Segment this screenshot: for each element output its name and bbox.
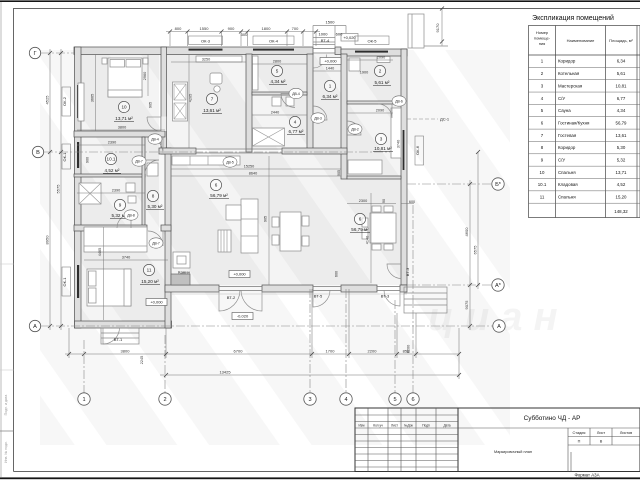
svg-text:6,34 м²: 6,34 м² [323,94,338,99]
sofa room7 [173,82,188,121]
svg-text:8640: 8640 [249,172,257,176]
bench room3 [391,108,401,158]
axis line 2 [164,335,166,393]
sheet bottom black line [0,477,640,479]
svg-text:ДС-1: ДС-1 [440,117,450,122]
svg-text:90: 90 [382,199,386,203]
door labels DV [124,88,406,248]
table room7 [210,73,222,84]
svg-text:В: В [600,440,603,444]
svg-text:13,71: 13,71 [616,170,628,175]
wall living bottom seg3 [341,285,377,292]
svg-text:148,32: 148,32 [614,209,628,214]
svg-text:ния: ния [539,41,546,46]
svg-text:15250: 15250 [244,165,255,169]
svg-text:4140: 4140 [366,236,370,244]
svg-text:4,34 м²: 4,34 м² [271,79,286,84]
svg-text:1000: 1000 [319,31,329,36]
svg-text:1900: 1900 [360,71,368,75]
svg-text:Кладовая: Кладовая [558,182,578,187]
svg-text:+0,000: +0,000 [233,272,246,277]
svg-text:Изм: Изм [359,424,365,428]
node room1 circle [324,80,335,91]
svg-text:5,61 м²: 5,61 м² [375,80,390,85]
svg-text:ДВ-8: ДВ-8 [127,213,135,217]
door room10 opening [161,117,166,132]
svg-text:5,32: 5,32 [617,158,626,163]
svg-text:2245: 2245 [140,356,144,364]
svg-text:А: А [33,324,37,330]
door arc VT-2 right leaf [241,290,262,311]
svg-text:56,79 м²: 56,79 м² [210,193,228,198]
svg-text:2390: 2390 [112,189,120,193]
svg-text:5: 5 [393,397,396,403]
wall divider rooms 2-3 [347,101,401,104]
svg-text:15,20 м²: 15,20 м² [141,279,159,284]
axis dash-dot lines [41,53,493,393]
svg-text:ВТ-2: ВТ-2 [227,295,236,300]
svg-text:Спальня: Спальня [558,195,576,200]
svg-text:1: 1 [82,397,85,403]
axis line A [41,325,493,327]
sheet left edge [0,2,2,477]
wall top main [74,47,313,55]
svg-text:4: 4 [344,397,347,403]
bathtub room4 [253,128,285,146]
svg-text:Спальня: Спальня [558,170,576,175]
top dim chain [166,31,320,33]
svg-text:13,61: 13,61 [616,133,628,138]
door arc DV-7 room8 [145,160,159,174]
svg-text:Мастерская: Мастерская [558,83,583,88]
svg-text:6575: 6575 [473,245,478,255]
svg-text:4600: 4600 [464,227,469,237]
opening VT-2 [219,287,262,291]
windows dark [77,49,404,298]
svg-text:4,52 м²: 4,52 м² [105,168,120,173]
svg-text:6: 6 [411,397,414,403]
walls [74,47,407,328]
svg-text:4,52: 4,52 [617,182,626,187]
opening DV-5 living top [196,149,282,153]
svg-text:10: 10 [540,170,545,175]
svg-text:3665: 3665 [91,94,95,102]
svg-text:Номер: Номер [536,30,549,35]
svg-text:Котельная: Котельная [558,71,580,76]
L-sofa living [241,199,258,253]
dimension lines [50,9,478,380]
svg-text:5575: 5575 [56,184,61,194]
wall above wardrobe left seg [74,225,147,231]
window OK-5 [355,51,388,53]
dim texts [45,23,478,375]
VT door labels [114,38,410,342]
svg-text:2960: 2960 [143,72,147,80]
svg-text:+0,000: +0,000 [150,300,163,305]
svg-text:6,34: 6,34 [617,59,626,64]
svg-text:2: 2 [163,397,166,403]
svg-text:ДВ-4: ДВ-4 [292,92,300,96]
opening VT-5 [313,287,341,291]
node room10 circle [118,101,129,112]
svg-text:Площадь, м²: Площадь, м² [609,38,633,43]
svg-text:ДВ-7: ДВ-7 [135,159,143,163]
svg-text:600: 600 [335,271,339,277]
svg-text:13,71 м²: 13,71 м² [115,116,133,121]
svg-text:Подп. и дата: Подп. и дата [4,395,8,416]
door arc room5 [281,94,295,108]
svg-text:3: 3 [308,397,311,403]
node room6 circle [210,179,221,190]
svg-text:Маркировочный план: Маркировочный план [494,450,532,454]
opening VT-4 top [313,49,335,54]
svg-text:Г: Г [33,51,36,57]
fireplace [173,252,190,268]
svg-text:9170: 9170 [435,23,440,33]
wall between room7 and 5 [246,54,252,152]
svg-text:10,81 м²: 10,81 м² [374,146,392,151]
svg-text:Камин: Камин [178,270,190,275]
svg-text:11: 11 [147,268,152,273]
svg-text:3: 3 [380,137,383,142]
node room5 circle [271,65,282,76]
svg-text:ВТ-5: ВТ-5 [314,294,323,299]
svg-text:Наименование: Наименование [567,38,596,43]
svg-text:13,61 м²: 13,61 м² [203,108,221,113]
svg-text:9075: 9075 [464,300,469,310]
door arc VT-2 left leaf [219,290,240,311]
chairs [372,206,381,212]
section mark DS-1 [407,117,450,122]
svg-text:ОК-3: ОК-3 [201,38,211,43]
door arc room9 [117,214,131,228]
svg-text:3800: 3800 [121,349,131,354]
svg-text:3800: 3800 [118,126,126,130]
svg-text:Кол.уч: Кол.уч [373,424,383,428]
svg-text:ОК-6: ОК-6 [415,145,420,155]
dim 9170 vertical [441,9,443,46]
svg-text:2: 2 [379,69,382,74]
svg-text:8: 8 [152,194,155,199]
axis line Bstar [407,183,492,185]
svg-text:10.1: 10.1 [538,182,547,187]
svg-text:1700: 1700 [326,349,336,354]
svg-text:Формат А3А: Формат А3А [574,473,599,478]
svg-text:3740: 3740 [122,256,130,260]
svg-text:56,79 м²: 56,79 м² [351,227,369,232]
svg-text:3740: 3740 [397,140,401,148]
rug living [218,230,231,252]
svg-text:1500: 1500 [326,20,336,25]
wall spine upper [161,47,167,154]
hall cabinet room8 [147,163,158,176]
toilet room9 [126,183,135,192]
svg-text:Подп: Подп [422,424,430,428]
axis line G [41,52,74,54]
wall room3 bottom [347,176,401,179]
svg-text:3250: 3250 [202,58,210,62]
node room101 circle [105,153,116,164]
right dim line 2 [477,152,479,289]
svg-text:С/У: С/У [558,158,565,163]
axis line 6 [412,205,414,393]
sheet top black line [0,0,640,2]
svg-text:В: В [36,150,40,156]
svg-text:7: 7 [211,97,214,102]
node room11 circle [143,264,154,275]
window labels [62,36,424,296]
svg-text:-0,020: -0,020 [237,314,249,319]
svg-text:4525: 4525 [45,95,50,105]
left dim line inner [60,49,62,330]
wall corridor1-rooms23 [341,54,347,179]
svg-text:1440: 1440 [326,67,334,71]
wall room10 bottom [74,131,165,137]
shower room9 [79,183,101,204]
svg-text:Дата: Дата [443,424,450,428]
door arc room10 [147,117,161,131]
room fills [77,54,401,321]
nightstand left [102,58,107,64]
axis line 5 [394,300,396,393]
node room6b circle [354,213,365,224]
svg-text:Коридор: Коридор [558,145,576,150]
svg-text:С/У: С/У [558,96,565,101]
node room7 circle [206,93,217,104]
svg-text:300: 300 [241,32,248,37]
wall bottom room 11 [75,321,172,328]
bottom dim line 2 [160,374,459,376]
svg-text:5,61: 5,61 [617,71,626,76]
svg-text:905: 905 [337,170,341,176]
openings thin lines [196,49,400,291]
svg-text:ДВ-3: ДВ-3 [314,116,322,120]
svg-text:Листов: Листов [620,431,632,435]
bed room10 [108,58,142,97]
window OK-1 lower [77,265,79,298]
svg-text:10: 10 [121,105,127,110]
wall between 4 and corridor1 [307,54,313,152]
svg-text:9: 9 [119,203,122,208]
axis line 1 [83,340,85,393]
svg-text:Инв. № подл.: Инв. № подл. [4,441,8,463]
svg-text:ДВ-2: ДВ-2 [351,127,359,131]
svg-text:Лист: Лист [597,431,606,435]
wall exterior left [75,47,82,328]
svg-text:ВТ-1: ВТ-1 [114,337,123,342]
svg-text:ОК-1: ОК-1 [62,152,67,162]
node room4 circle [289,116,300,127]
svg-text:Сауна: Сауна [558,108,571,113]
door arc room3 [347,121,361,135]
svg-text:+0,020: +0,020 [343,35,356,40]
svg-text:ВТ-3: ВТ-3 [405,267,410,276]
door arc VT-5 [313,290,330,307]
svg-text:ВТ-4: ВТ-4 [321,38,330,43]
axis line 3 [309,289,311,393]
node room3 circle [375,133,386,144]
svg-text:4465: 4465 [98,248,102,256]
svg-text:6: 6 [215,183,218,188]
svg-text:1800: 1800 [262,26,272,31]
door arcs [103,55,402,345]
wardrobe room11 [84,227,147,252]
svg-text:5: 5 [276,69,279,74]
window OK-2 [77,85,79,118]
svg-text:56,79: 56,79 [616,120,628,125]
porch bottom right [404,287,447,313]
wall living bottom seg1 [165,285,219,292]
step edge below living wall [171,293,407,295]
svg-text:Коридор: Коридор [558,59,576,64]
boiler room2 [349,58,360,71]
wall above wardrobe right seg [161,225,171,231]
svg-text:ОК-5: ОК-5 [368,38,378,43]
svg-text:1550: 1550 [200,26,210,31]
node room8 circle [147,190,158,201]
sink room4 [272,97,281,106]
svg-text:905: 905 [149,102,153,108]
svg-text:900: 900 [228,26,235,31]
svg-text:11: 11 [540,195,545,200]
door arc entrance VT-4 [313,55,327,69]
tv console room7 [196,56,242,62]
wall exterior right x401 [401,49,407,285]
svg-text:6700: 6700 [234,349,244,354]
svg-text:2090: 2090 [377,56,385,60]
svg-text:Субботино ЧД - АР: Субботино ЧД - АР [524,414,581,422]
wall divider 10.1-9 [74,174,145,177]
svg-text:+0,000: +0,000 [324,59,337,64]
svg-text:Б*: Б* [495,182,502,188]
axis line V [44,151,390,153]
svg-text:6,77 м²: 6,77 м² [289,129,304,134]
axis line Astar [407,284,492,286]
canopy entrance [313,14,448,48]
svg-text:Лист: Лист [391,424,398,428]
left dim line outer [49,49,51,330]
svg-text:А: А [497,324,501,330]
svg-text:1: 1 [329,84,332,89]
svg-text:900: 900 [86,157,90,163]
svg-text:Стадия: Стадия [573,431,586,435]
svg-text:ДВ-7: ДВ-7 [152,241,160,245]
svg-text:13425: 13425 [219,370,231,375]
svg-text:А*: А* [495,283,502,289]
svg-text:№Док: №Док [404,424,413,428]
bottom dim line 1 [65,353,459,355]
svg-text:П: П [578,440,581,444]
nightstand right [143,58,148,64]
svg-text:2390: 2390 [108,141,116,145]
svg-text:ОК-2: ОК-2 [62,96,67,106]
svg-text:10.1: 10.1 [107,157,116,162]
svg-text:ВТ-3: ВТ-3 [381,294,390,299]
svg-text:10,81: 10,81 [616,83,628,88]
watermark stripes [40,50,510,445]
svg-text:6,77: 6,77 [617,96,626,101]
svg-text:2300: 2300 [359,199,367,203]
window OK-1 upper [77,142,79,168]
kitchen cabinets top [172,156,240,165]
wall top entrance-right piece [335,47,341,55]
door arc VT-1 [103,328,120,345]
svg-text:ДВ-6: ДВ-6 [395,99,403,103]
svg-text:ДВ-5: ДВ-5 [226,160,234,164]
left stamp line [0,430,14,432]
wall B-axis right segment [282,148,347,154]
interior dims [86,56,416,365]
porch bottom left [101,328,139,344]
right dim line 1 [469,180,471,330]
svg-text:ДВ-4: ДВ-4 [151,137,159,141]
wall corridor8 left [142,137,145,231]
door arc wardrobe room11 [148,231,163,246]
svg-text:600: 600 [336,31,343,36]
bench room5 [253,56,259,90]
area texts [103,79,393,284]
room schedule table [529,14,640,218]
svg-text:помеще-: помеще- [534,36,551,41]
wall B-axis left segment [159,148,196,154]
svg-text:5,30: 5,30 [617,145,626,150]
window OK-3 [189,49,223,51]
svg-text:Гостевая: Гостевая [558,133,577,138]
svg-text:6: 6 [359,217,362,222]
window OK-4 [253,49,294,51]
svg-text:Экспликация помещений: Экспликация помещений [532,14,614,22]
axis line 4 [345,289,347,393]
svg-text:5,30 м²: 5,30 м² [148,204,163,209]
svg-text:15,20: 15,20 [616,195,628,200]
toilet room4 [286,97,294,106]
bed room11 [87,269,131,306]
svg-text:905: 905 [264,216,268,222]
room number circles and areas [105,65,386,275]
svg-text:6200: 6200 [407,345,411,353]
svg-text:2440: 2440 [271,111,279,115]
wall spine lower [165,148,171,328]
wardrobe room10 [78,83,84,121]
svg-text:8950: 8950 [45,235,50,245]
svg-text:2200: 2200 [368,349,378,354]
svg-text:700: 700 [292,26,299,31]
node room2 circle [374,65,385,76]
dining table [370,213,396,243]
door arc VT-3 right wall [387,264,402,279]
wall top rooms 2-3 [341,49,407,56]
window OK-6 [403,130,405,170]
svg-text:2090: 2090 [376,109,384,113]
axis circles [29,47,505,405]
svg-text:800: 800 [175,26,182,31]
svg-text:2800: 2800 [273,60,281,64]
svg-text:ОК-1: ОК-1 [62,277,67,287]
svg-text:4: 4 [294,120,297,125]
door arc corridor-room4 [313,106,327,120]
dim ticks [48,7,480,378]
wall living bottom seg2 [262,285,313,292]
wall divider rooms 5-4 [252,92,290,95]
interior dim lines [77,54,414,320]
door arc rooms2-3 [378,104,392,118]
dining table living [280,212,301,251]
svg-text:Гостиная/Кухня: Гостиная/Кухня [558,120,590,125]
node room9 circle [114,199,125,210]
door arc DV-4 room10.1 [148,138,164,154]
elevation boxes [146,20,356,320]
svg-text:4,34: 4,34 [617,108,626,113]
